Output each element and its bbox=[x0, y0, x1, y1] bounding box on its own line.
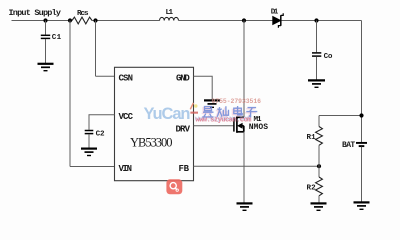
svg-text:BAT: BAT bbox=[342, 141, 355, 150]
node junction FB bbox=[317, 164, 321, 168]
wire top rail left segment bbox=[12, 20, 71, 22]
wire Co to ground bbox=[316, 57, 318, 80]
svg-text:Rcs: Rcs bbox=[77, 10, 89, 18]
wire drain to top junction bbox=[243, 21, 245, 118]
wire DRV to NMOS gate bbox=[194, 125, 234, 127]
wire CSN horizontal to IC bbox=[96, 75, 115, 77]
wire VCC to C2 bbox=[89, 115, 115, 130]
wire R2 lower lead bbox=[318, 196, 320, 203]
wire source down bbox=[243, 132, 245, 203]
svg-text:VCC: VCC bbox=[119, 112, 134, 122]
wire GND pin to ground bbox=[194, 76, 213, 99]
wire Rcs right lead to L1 bbox=[92, 20, 160, 22]
resistor Rcs bbox=[72, 17, 92, 24]
node junction VIN rail bbox=[68, 18, 72, 22]
ground BAT bbox=[354, 202, 370, 209]
wire R1 upper lead bbox=[318, 116, 320, 127]
svg-text:YuCan: YuCan bbox=[144, 105, 191, 123]
svg-text:YB53300: YB53300 bbox=[130, 136, 173, 150]
transistor M1 NMOS bbox=[234, 116, 244, 132]
node junction drain bbox=[242, 18, 246, 22]
wire battery to ground bbox=[361, 147, 363, 202]
svg-text:www.szyucan.com: www.szyucan.com bbox=[196, 116, 252, 124]
wire R1 top feed bbox=[319, 115, 362, 117]
battery BAT bbox=[356, 143, 367, 146]
svg-text:R2: R2 bbox=[307, 185, 317, 193]
wire Rcs left lead bbox=[70, 20, 72, 22]
svg-text:L1: L1 bbox=[166, 9, 174, 17]
svg-text:0755-27933516: 0755-27933516 bbox=[212, 98, 262, 105]
node junction Co bbox=[314, 18, 318, 22]
svg-text:R1: R1 bbox=[307, 134, 317, 142]
svg-text:C1: C1 bbox=[52, 34, 62, 42]
resistor R2 bbox=[316, 177, 323, 196]
ground GND pin bbox=[204, 100, 220, 107]
watermark chinese characters 昱灿电子 bbox=[202, 106, 257, 117]
wire D1 to Co junction to top-right corner bbox=[282, 20, 362, 22]
ground C2 bbox=[81, 149, 97, 156]
svg-text:GND: GND bbox=[176, 73, 190, 83]
diode D1 (Schottky) bbox=[273, 13, 283, 28]
wire right rail down to battery bbox=[361, 21, 363, 143]
node junction C1 bbox=[43, 18, 47, 22]
ground NMOS source bbox=[237, 203, 253, 210]
watermark logo flame mark bbox=[190, 103, 198, 114]
resistor R1 bbox=[316, 127, 323, 146]
wire C1 branch upper bbox=[45, 21, 47, 35]
ground R2 bbox=[311, 203, 327, 210]
capacitor C1 bbox=[41, 35, 50, 38]
ground C1 bbox=[38, 64, 54, 71]
wire VIN rail vertical bbox=[69, 21, 71, 167]
inductor L1 bbox=[160, 17, 179, 20]
svg-text:DRV: DRV bbox=[176, 124, 191, 134]
svg-text:NMOS: NMOS bbox=[249, 123, 268, 132]
svg-text:VIN: VIN bbox=[119, 164, 133, 174]
wire Co branch upper bbox=[316, 21, 318, 53]
node junction right rail R1 feed bbox=[359, 113, 363, 117]
node junction CSN rail bbox=[93, 18, 97, 22]
svg-text:CSN: CSN bbox=[119, 73, 134, 83]
capacitor C2 bbox=[85, 131, 94, 134]
wire R1 to FB junction to R2 bbox=[318, 145, 320, 177]
wire VIN horizontal to IC bbox=[70, 166, 115, 168]
svg-text:FB: FB bbox=[179, 164, 190, 174]
wire C2 to ground bbox=[88, 134, 90, 148]
wire C1 branch lower bbox=[45, 39, 47, 63]
svg-text:C2: C2 bbox=[96, 130, 105, 138]
capacitor Co bbox=[312, 53, 321, 56]
IC U1 YB53300 body bbox=[115, 67, 194, 180]
wire L1 to drain junction bbox=[179, 20, 273, 22]
ground Co bbox=[308, 80, 325, 87]
svg-text:Co: Co bbox=[324, 53, 333, 61]
wire FB to divider junction bbox=[194, 165, 320, 167]
svg-text:Input Supply: Input Supply bbox=[9, 8, 62, 18]
watermark chinese characters (pink offset copy) bbox=[201, 107, 256, 118]
zoom icon overlay bbox=[166, 179, 182, 194]
svg-text:D1: D1 bbox=[271, 9, 279, 17]
wire CSN rail vertical bbox=[95, 21, 97, 77]
